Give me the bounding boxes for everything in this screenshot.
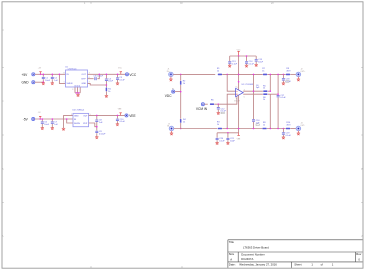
wire -in riser [227,74,235,91]
capacitor C8 [95,119,98,122]
capacitor C14 lead [246,56,248,65]
connector J4 OUT- [296,126,300,130]
J4 ground stem [297,131,299,133]
capacitor C18 lead [282,74,284,83]
J3 ground stem [171,131,173,133]
out- wire after R6b [268,93,278,95]
U1 bottom stubs [75,87,80,93]
resistor R5 on out+ [263,90,268,92]
VCC dist flag [237,51,239,56]
svg-text:10uF: 10uF [45,80,50,82]
svg-text:Rev: Rev [356,252,362,256]
svg-text:OUT: OUT [83,116,88,118]
capacitor C15 [255,59,258,62]
connector J GND [32,81,35,84]
capacitor C13 lead [229,56,231,65]
capacitor C21 [226,138,229,141]
feedback vertical 3 [277,74,279,128]
wire -5V to U2 [35,118,73,120]
VEE dist line [217,132,239,134]
V- vertical [238,95,240,133]
bottom rail wire [174,128,218,130]
svg-text:0.01uF: 0.01uF [99,133,106,135]
capacitor C13 [228,61,231,64]
bottom rail wire continued [222,128,286,130]
junction [42,118,44,120]
op IC U1 box [66,70,88,87]
resistor R8 series bottom fb [262,128,267,130]
resistor R1 [105,87,107,91]
VCM IN connector E2 [201,103,204,106]
resistor R10 series out- [286,128,291,130]
resistor R6b on out- [263,93,268,95]
wire U2 GND pin to ground [64,116,74,129]
bottom tie wire [75,93,80,95]
svg-text:0.1uF: 0.1uF [219,140,225,142]
svg-text:0.1uF: 0.1uF [286,135,292,137]
zone tick top 3 [91,2,273,4]
connector J1 IN+ [169,72,173,76]
junction [78,92,80,94]
svg-text:2: 2 [71,114,72,116]
ground under C21 [226,143,229,145]
capacitor C2 [51,77,54,80]
capacitor C6 [41,121,44,124]
VEE power flag [119,113,121,116]
svg-text:10uF: 10uF [108,81,113,83]
wire U2 OUT to VEE [89,114,125,116]
connector J +5V [32,73,35,76]
capacitor C21 lead [227,133,229,143]
wire U2 SHDN tie [67,119,73,123]
junction [238,55,240,57]
svg-text:10uF: 10uF [258,61,263,63]
svg-text:LT6363 Driver Board: LT6363 Driver Board [243,245,269,249]
junction [117,74,119,76]
junction [99,74,101,76]
capacitor C7 [51,121,54,124]
svg-text:Sheet: Sheet [294,263,302,267]
svg-text:of: of [321,263,324,267]
svg-text:VOCM: VOCM [234,101,240,103]
junction [117,115,119,117]
connector J2 OUT+ [296,72,300,76]
resistor R1 series top [218,73,223,75]
svg-text:GND: GND [22,81,30,85]
ground under J1 [169,79,172,81]
capacitor C18 [282,78,285,81]
junction [180,91,182,93]
op IC U2 box [73,113,89,126]
junction [40,74,42,76]
out+ wire [243,90,263,92]
J2 ground stem [297,77,299,79]
svg-text:Size: Size [229,252,235,256]
ground under C14 [245,65,248,67]
svg-text:1: 1 [64,82,65,84]
svg-text:10uF: 10uF [44,124,49,126]
C12 opt box [221,112,224,114]
svg-text:V+: V+ [236,86,238,88]
svg-text:IN-: IN- [167,125,170,127]
junction [96,126,98,128]
resistor R6 series vocm [210,103,215,105]
junction [66,118,68,120]
junction [270,90,272,92]
ground under U1 [76,95,79,97]
capacitor C9 [95,131,98,134]
junction [253,128,255,130]
capacitor C16 on fb1 [252,119,255,122]
VCC dist line [230,55,257,57]
capacitor C6 lead [41,119,43,128]
junction [96,115,98,117]
feedback vertical 2 [269,74,271,91]
+5V power flag [39,72,41,75]
bottom NC cap branch junction [283,128,285,130]
junction V+ [238,81,240,83]
capacitor C14 [245,61,248,64]
connector VEE [125,114,128,117]
junction [270,74,272,76]
svg-text:G G G: G G G [74,85,80,87]
ground under C18 [282,83,285,85]
svg-text:VCC: VCC [129,73,136,77]
svg-text:OUT-: OUT- [300,125,305,127]
ground under C15 [255,64,258,66]
zone letters left [2,30,4,238]
svg-text:E1: E1 [172,88,174,90]
C16 opt box [256,124,259,126]
bus junction top [180,74,182,76]
-5V power flag [39,116,41,119]
feedback resistor R7 on rail [263,73,268,75]
svg-text:BYP: BYP [83,123,88,125]
svg-text:OUT+: OUT+ [300,71,305,73]
out- wire [243,93,263,95]
ground under C1 [42,83,45,85]
wire GND run [35,81,43,83]
svg-text:Date:: Date: [229,263,236,267]
junction [39,118,41,120]
svg-text:SHDN: SHDN [74,123,80,125]
svg-text:0.1uF: 0.1uF [286,81,292,83]
junction [106,84,108,86]
svg-text:3: 3 [72,89,73,91]
capacitor C11 lead [217,104,219,112]
bottom rail wire to J4 [290,128,296,130]
junction [277,74,279,76]
ground under J2 [297,79,300,81]
capacitor C11 [217,107,220,110]
ground under C20 [215,143,218,145]
connector VCC [126,73,129,76]
resistor R3 series bottom [218,128,223,130]
capacitor C19 [282,132,285,135]
wire U1 OUT to VCC [88,73,126,75]
J1 ground stem [170,77,172,79]
connector J3 IN- [169,126,173,130]
capacitor C17 on fb3 [277,95,280,98]
junction [76,92,78,94]
wire SHDN tie [59,74,65,83]
capacitor C10 lead [116,115,118,123]
junction [52,74,54,76]
junction [253,74,255,76]
ground under C6 [41,128,44,130]
capacitor C5 [116,77,119,80]
capacitor C15 lead [255,56,257,64]
ground under C13 [228,65,231,67]
svg-text:Document Number: Document Number [241,252,265,256]
svg-text:IN+: IN+ [167,71,170,73]
junction [270,128,272,130]
ground under R1 [105,95,108,97]
svg-text:5: 5 [244,97,245,99]
ground for U2 [62,128,65,130]
svg-text:VCC: VCC [118,67,123,69]
svg-text:-5V: -5V [23,118,29,122]
size column line [237,252,239,262]
capacitor C4 lead [105,74,107,95]
resistor R4 lower bias [180,119,182,123]
capacitor C3 bypass [94,77,97,80]
ground under C7 [51,128,54,130]
capacitor C5 lead [117,74,119,83]
svg-text:0.1uF: 0.1uF [249,63,255,65]
ground under C2 [51,83,54,85]
junction A [226,74,228,76]
wire VCM to R6 [205,103,208,105]
svg-text:+5V: +5V [22,73,29,77]
minus mark [236,90,237,92]
junction [218,103,220,105]
junction bus bottom [180,128,182,130]
svg-text:0.1uF: 0.1uF [119,80,125,82]
wire +in riser [227,94,235,128]
zone numbers top [84,3,273,5]
zone tick right [361,68,363,203]
wire VDC to bus [175,91,181,93]
zone tick bottom [91,266,182,268]
junction B [226,128,228,130]
plus mark [236,94,237,95]
top NC cap branch junction [283,74,285,76]
ground under C11 [217,113,220,115]
svg-text:U2 LT1964-5: U2 LT1964-5 [72,109,85,111]
feedback vertical 2 lower [269,94,271,128]
junction [238,74,240,76]
wire +5V to U1 IN [35,73,66,75]
junction [43,74,45,76]
zone letter right [361,169,363,238]
svg-text:GND: GND [74,116,79,118]
zone tick left [2,68,4,203]
top rail wire continued [220,73,286,75]
top rail wire to J2 [290,73,296,75]
VEE dist flag [237,133,239,136]
svg-text:VCM IN: VCM IN [196,107,208,111]
capacitor C8 lead [96,115,98,136]
resistor R9 series out+ [286,73,291,75]
ground under C9 [95,137,98,139]
bias bus vertical [180,74,182,128]
connector J -5V [32,118,35,121]
svg-text:A: A [230,257,232,261]
capacitor C2 lead [51,74,53,83]
C18 opt box [286,81,289,83]
svg-text:SHDN: SHDN [67,83,73,85]
capacitor C10 [116,119,119,122]
svg-text:VDC: VDC [165,94,172,98]
junction [59,74,61,76]
capacitor C1 lead [42,74,44,83]
op-amp U3 triangle [236,88,244,96]
VCC power flag [120,72,122,75]
sheet column line [290,262,292,268]
wire BYP to C3 [88,78,94,80]
ground under J3 [170,133,173,135]
capacitor C19 lead [282,129,284,138]
wire SENSE run [88,83,107,85]
junction [246,55,248,57]
top rail wire [173,73,215,75]
svg-text:0.1uF: 0.1uF [232,63,238,65]
svg-text:DC2467A: DC2467A [241,257,253,261]
svg-text:10uF: 10uF [230,140,235,142]
svg-text:0.1uF: 0.1uF [280,97,286,99]
ground under J4 [297,133,300,135]
svg-text:Title: Title [229,240,235,244]
title block [228,240,363,268]
junction [238,128,240,130]
capacitor C4 [105,78,108,81]
ground under C5 [116,83,119,85]
svg-text:VEE: VEE [129,114,135,118]
capacitor C7 lead [51,119,53,128]
junction [277,93,279,95]
resistor R2 upper bias [180,81,182,85]
feedback vertical 1 [253,74,255,128]
svg-text:LT1761-5: LT1761-5 [68,69,77,71]
capacitor C1 [42,77,45,80]
svg-text:C3 0.01uF: C3 0.01uF [94,76,104,78]
svg-text:Wednesday, January 27, 2016: Wednesday, January 27, 2016 [239,263,277,267]
svg-text:U1 LTC6363: U1 LTC6363 [242,84,254,86]
rev column line [354,252,356,262]
wire R6 to vocm [214,96,237,104]
junction [43,81,45,83]
ground under C10 [116,124,119,126]
capacitor C20 lead [216,133,218,143]
V+ vertical [238,56,240,90]
junction [106,74,108,76]
title block outline [228,240,363,268]
C3 lead up [97,74,99,78]
junction [227,132,229,134]
wire BYP run [89,123,97,127]
svg-text:0.1uF: 0.1uF [120,121,126,123]
junction [253,90,255,92]
capacitor C20 [216,138,219,141]
svg-text:8: 8 [64,73,65,75]
junction [52,118,54,120]
svg-text:GND: GND [82,83,87,85]
out+ wire after R5 [268,90,271,92]
svg-text:OUT: OUT [82,74,87,76]
connector E1 VDC [172,90,175,93]
svg-text:BYP: BYP [82,79,87,81]
ground under C19 [282,137,285,139]
junction [277,128,279,130]
